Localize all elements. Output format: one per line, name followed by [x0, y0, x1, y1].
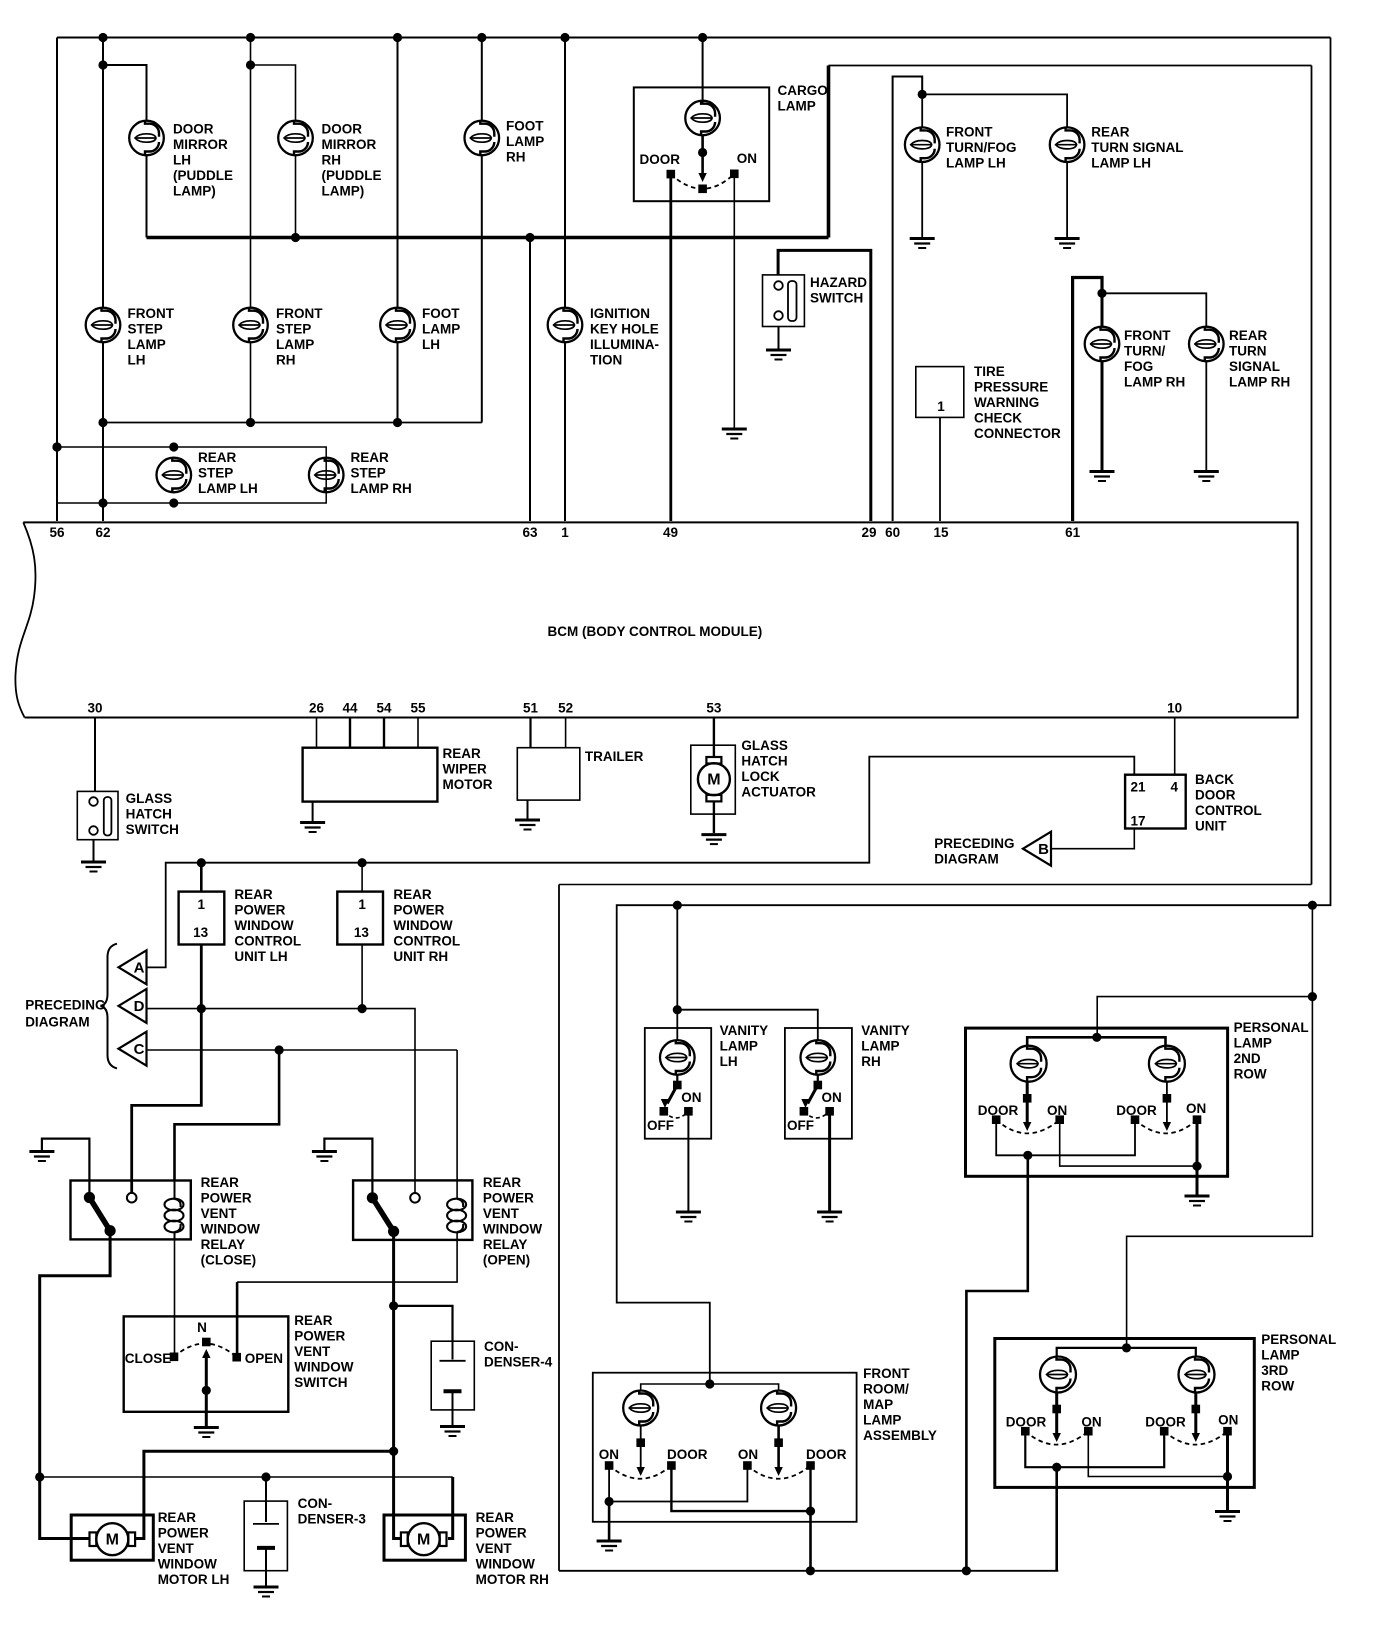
wire front turn/fog RH to ground	[1101, 361, 1104, 471]
wire return bus drop x559	[558, 885, 560, 1571]
wire BCM pin 51	[529, 718, 531, 748]
svg-text:LAMP RH: LAMP RH	[351, 481, 412, 496]
svg-text:MIRROR: MIRROR	[173, 137, 228, 152]
contact switch N	[202, 1338, 211, 1347]
svg-text:POWER: POWER	[476, 1526, 527, 1541]
tire pressure warning check connector box	[916, 367, 964, 418]
wire door mirror LH feed	[103, 65, 147, 121]
svg-text:UNIT LH: UNIT LH	[234, 949, 287, 964]
wire foot lamp LH return	[397, 342, 399, 422]
junction turn lamps RH	[1097, 289, 1106, 298]
svg-text:VENT: VENT	[294, 1344, 331, 1359]
lamp VANITY LAMP LH	[660, 1040, 695, 1075]
svg-text:2ND: 2ND	[1234, 1051, 1261, 1066]
contact 2nd row DOOR right	[1131, 1115, 1140, 1124]
wire 2nd row inner bus	[1027, 1037, 1165, 1046]
svg-text:(OPEN): (OPEN)	[483, 1253, 530, 1268]
relay close common contact	[84, 1192, 95, 1203]
svg-text:C: C	[134, 1041, 145, 1058]
svg-text:LH: LH	[128, 353, 146, 368]
junction mirror LH tap	[98, 60, 107, 69]
svg-text:RH: RH	[276, 353, 296, 368]
svg-text:WINDOW: WINDOW	[294, 1360, 353, 1375]
svg-text:SIGNAL: SIGNAL	[1229, 359, 1280, 374]
svg-text:TURN/FOG: TURN/FOG	[946, 140, 1017, 155]
wire 2nd row left lamp drop	[1026, 1082, 1029, 1126]
contact switch CLOSE	[170, 1353, 179, 1362]
svg-text:ON: ON	[1047, 1103, 1067, 1118]
svg-text:M: M	[417, 1532, 430, 1549]
junction 2nd row DOOR output	[1023, 1151, 1032, 1160]
junction bottom bus front-room output	[806, 1566, 815, 1575]
wire foot lamp RH return	[481, 155, 483, 422]
svg-text:RELAY: RELAY	[201, 1237, 246, 1252]
svg-text:OFF: OFF	[787, 1118, 814, 1133]
svg-text:DIAGRAM: DIAGRAM	[934, 852, 999, 867]
svg-text:13: 13	[193, 925, 209, 940]
wire 3rd row right lamp drop	[1194, 1393, 1197, 1438]
vanity LH switch arc	[664, 1111, 689, 1118]
relay open NO contact	[410, 1193, 420, 1203]
contact switch OPEN	[232, 1353, 241, 1362]
contact 3rd row ON right	[1223, 1427, 1232, 1436]
svg-text:OPEN: OPEN	[245, 1351, 283, 1366]
arrow 2nd row left	[1023, 1122, 1031, 1131]
junction top bus x565	[560, 33, 569, 42]
wire return bus top run to right	[829, 65, 1312, 67]
svg-text:TURN SIGNAL: TURN SIGNAL	[1091, 140, 1183, 155]
wire hazard switch feed / BCM pin 29	[778, 250, 871, 521]
glass hatch switch rocker	[104, 797, 112, 836]
svg-text:29: 29	[861, 525, 876, 540]
wire front room left lamp drop	[640, 1426, 642, 1471]
svg-text:21: 21	[1131, 780, 1147, 795]
svg-text:MOTOR: MOTOR	[443, 777, 493, 792]
ground personal lamp 3rd row	[1215, 1512, 1240, 1522]
svg-text:TIRE: TIRE	[974, 364, 1005, 379]
relay open armature	[372, 1198, 393, 1232]
ground front turn/fog RH	[1090, 472, 1115, 482]
ground rear turn RH	[1194, 472, 1219, 482]
svg-text:REAR: REAR	[1229, 328, 1268, 343]
svg-text:SWITCH: SWITCH	[126, 822, 179, 837]
capacitor CON-DENSER-3	[253, 1523, 279, 1525]
svg-text:ON: ON	[1218, 1413, 1238, 1428]
svg-text:FRONT: FRONT	[1124, 328, 1171, 343]
svg-text:WARNING: WARNING	[974, 395, 1039, 410]
svg-text:LAMP: LAMP	[1234, 1036, 1272, 1051]
junction 2nd row ON output	[1192, 1162, 1201, 1171]
svg-text:REAR: REAR	[476, 1510, 515, 1525]
wire net A (back door 21 to units and triangle A)	[147, 757, 1135, 968]
junction top bus x482	[477, 33, 486, 42]
svg-text:CON-: CON-	[298, 1496, 333, 1511]
svg-text:POWER: POWER	[393, 903, 444, 918]
svg-text:WINDOW: WINDOW	[393, 918, 452, 933]
contact cargo DOOR	[667, 170, 676, 179]
junction vanity feed	[673, 901, 682, 910]
svg-text:LAMP: LAMP	[778, 99, 816, 114]
wire glass hatch switch ground lead	[93, 840, 95, 861]
svg-text:FRONT: FRONT	[946, 125, 993, 140]
svg-text:LAMP RH: LAMP RH	[1124, 375, 1185, 390]
junction vanity RH branch	[673, 1005, 682, 1014]
ground rear turn LH	[1055, 239, 1080, 249]
ground cargo ON	[722, 429, 747, 439]
wire relay close common feed	[42, 1139, 90, 1198]
svg-text:UNIT RH: UNIT RH	[393, 949, 448, 964]
wire 3rd row DOOR tie	[1025, 1431, 1164, 1467]
svg-text:10: 10	[1167, 701, 1182, 716]
svg-text:30: 30	[87, 701, 102, 716]
junction D unit RH	[358, 1004, 367, 1013]
contact front room left	[636, 1438, 645, 1447]
lamp VANITY LAMP RH	[801, 1040, 836, 1075]
svg-text:63: 63	[522, 525, 538, 540]
svg-text:1: 1	[937, 399, 945, 414]
glass hatch switch contact top	[89, 797, 98, 806]
svg-text:HATCH: HATCH	[126, 807, 172, 822]
rear power window control unit LH box	[179, 892, 225, 945]
wire BCM pin 52	[565, 718, 567, 748]
relay close armature	[89, 1198, 110, 1231]
contact 3rd row DOOR right	[1160, 1427, 1169, 1436]
lamp IGNITION KEY HOLE ILLUMINATION	[548, 308, 583, 343]
svg-text:ROOM/: ROOM/	[863, 1382, 909, 1397]
svg-text:POWER: POWER	[234, 903, 285, 918]
wire door mirror RH return	[295, 155, 297, 237]
svg-text:ROW: ROW	[1261, 1379, 1294, 1394]
svg-text:PRESSURE: PRESSURE	[974, 380, 1048, 395]
contact front room ON right	[743, 1461, 752, 1470]
wire C to relay close coil	[175, 1050, 280, 1181]
wire net D	[147, 1009, 416, 1193]
svg-text:ON: ON	[737, 151, 757, 166]
triangle preceding diagram B	[1023, 832, 1051, 866]
svg-text:KEY HOLE: KEY HOLE	[590, 322, 659, 337]
svg-text:FOG: FOG	[1124, 359, 1153, 374]
svg-text:MAP: MAP	[863, 1397, 893, 1412]
condenser-4 box	[431, 1341, 474, 1410]
svg-text:WINDOW: WINDOW	[201, 1222, 260, 1237]
svg-text:LAMP LH: LAMP LH	[1091, 156, 1151, 171]
BCM torn left edge	[15, 522, 35, 717]
lamp FRONT STEP LAMP RH	[233, 308, 268, 343]
wire front room DOOR output	[809, 1511, 812, 1571]
svg-text:ACTUATOR: ACTUATOR	[741, 785, 816, 800]
relay open common contact	[367, 1192, 378, 1203]
wire condenser-3 feed	[265, 1477, 267, 1522]
junction mirror RH on bus	[291, 233, 300, 242]
junction 3rd row DOOR output	[1052, 1463, 1061, 1472]
svg-text:BCM (BODY CONTROL MODULE): BCM (BODY CONTROL MODULE)	[548, 624, 763, 639]
wire cargo DOOR to BCM pin 49	[669, 174, 672, 521]
wire main return bus (heavy)	[147, 236, 829, 240]
lamp REAR TURN SIGNAL LAMP RH	[1189, 327, 1224, 362]
junction 3rd row feed	[1122, 1343, 1131, 1352]
svg-text:LAMP LH: LAMP LH	[946, 156, 1006, 171]
wire motor LH right lead	[136, 1451, 394, 1538]
svg-text:ON: ON	[681, 1090, 701, 1105]
contact vanity LH pivot	[673, 1081, 682, 1090]
wire BCM pin 10	[1174, 718, 1176, 775]
svg-text:LAMP RH: LAMP RH	[1229, 375, 1290, 390]
junction rear step LH feed	[169, 442, 178, 451]
svg-text:49: 49	[663, 525, 678, 540]
switch arc	[174, 1343, 237, 1357]
svg-text:44: 44	[342, 701, 358, 716]
contact 2nd row ON right	[1193, 1115, 1202, 1124]
wire BCM pin 60 riser	[893, 77, 923, 522]
junction foot LH on return bus	[393, 418, 402, 427]
triangle preceding diagram D	[119, 989, 147, 1023]
svg-text:FRONT: FRONT	[128, 306, 175, 321]
back door control unit box	[1125, 775, 1186, 829]
contact vanity RH OFF	[800, 1107, 809, 1116]
junction personal feed	[1308, 901, 1317, 910]
ground condenser-4	[440, 1427, 465, 1437]
svg-text:MIRROR: MIRROR	[322, 137, 377, 152]
wire relay close output	[40, 1231, 110, 1539]
svg-text:STEP: STEP	[351, 466, 386, 481]
contact vanity LH ON	[684, 1107, 693, 1116]
svg-text:LAMP: LAMP	[422, 322, 460, 337]
svg-text:61: 61	[1065, 525, 1081, 540]
relay close coil	[174, 1181, 176, 1200]
personal lamp 2nd row box	[966, 1028, 1228, 1176]
svg-text:GLASS: GLASS	[126, 791, 173, 806]
junction 2nd row branch	[1308, 992, 1317, 1001]
wire relay open coil to switch OPEN	[237, 1240, 457, 1282]
lamp DOOR MIRROR RH (PUDDLE LAMP)	[278, 121, 313, 156]
ground trailer	[515, 820, 540, 830]
junction unit LH pin1	[197, 858, 206, 867]
arrow 3rd row right	[1192, 1433, 1200, 1442]
motor REAR POWER VENT WINDOW MOTOR RH	[384, 1515, 465, 1560]
svg-text:REAR: REAR	[294, 1313, 333, 1328]
wire front step lamp RH chain	[250, 38, 252, 308]
svg-text:M: M	[106, 1532, 119, 1549]
wire unit RH pin 1	[361, 863, 363, 892]
svg-text:ON: ON	[599, 1447, 619, 1462]
ground vanity lamp RH	[817, 1212, 842, 1222]
contact front room right	[774, 1438, 783, 1447]
junction rear step feed left	[52, 442, 61, 451]
svg-text:WINDOW: WINDOW	[158, 1557, 217, 1572]
svg-text:POWER: POWER	[158, 1526, 209, 1541]
lamp DOOR MIRROR LH (PUDDLE LAMP)	[129, 121, 164, 156]
svg-text:LAMP: LAMP	[861, 1039, 899, 1054]
wire BCM pin 61 riser	[1073, 278, 1102, 522]
svg-text:REAR: REAR	[158, 1510, 197, 1525]
contact vanity RH pivot	[814, 1081, 823, 1090]
wire BCM pin 15	[939, 417, 941, 521]
svg-text:STEP: STEP	[276, 322, 311, 337]
wire relay close coil to switch CLOSE	[174, 1239, 176, 1356]
svg-text:FRONT: FRONT	[276, 306, 323, 321]
wire vanity RH to ground	[828, 1111, 831, 1211]
ground rear power vent window switch	[194, 1428, 219, 1438]
wire cargo ON to ground	[733, 174, 735, 429]
svg-text:ROW: ROW	[1234, 1067, 1267, 1082]
svg-text:13: 13	[354, 925, 370, 940]
svg-text:LAMP: LAMP	[1261, 1348, 1299, 1363]
svg-text:ON: ON	[1081, 1415, 1101, 1430]
wire switch common	[205, 1352, 208, 1427]
motor GLASS HATCH LOCK ACTUATOR	[698, 763, 730, 795]
ground relay open common	[312, 1152, 337, 1162]
svg-text:DOOR: DOOR	[806, 1447, 847, 1462]
svg-text:GLASS: GLASS	[741, 738, 788, 753]
hazard switch rocker	[788, 281, 797, 321]
wire front room right lamp drop	[777, 1426, 780, 1471]
svg-text:POWER: POWER	[483, 1191, 534, 1206]
svg-text:B: B	[1038, 841, 1049, 858]
svg-text:TURN: TURN	[1229, 344, 1267, 359]
svg-text:LAMP: LAMP	[276, 337, 314, 352]
wire net C	[147, 1049, 458, 1051]
svg-text:CONNECTOR: CONNECTOR	[974, 426, 1061, 441]
svg-text:CONTROL: CONTROL	[393, 934, 460, 949]
svg-text:3RD: 3RD	[1261, 1363, 1288, 1378]
svg-text:HATCH: HATCH	[741, 754, 787, 769]
svg-text:ON: ON	[822, 1090, 842, 1105]
wire rear turn signal RH feed	[1102, 293, 1206, 326]
wire actuator ground lead	[713, 801, 715, 833]
wire vanity RH feed	[677, 1010, 818, 1040]
front room left switch arc	[609, 1466, 671, 1479]
junction mirror RH tap	[246, 60, 255, 69]
wire main feed right edge	[617, 38, 1331, 1385]
rear power vent window switch box	[124, 1316, 289, 1411]
junction motor bus	[389, 1447, 398, 1456]
wire rear turn signal LH feed	[922, 94, 1067, 127]
lamp FRONT TURN/FOG LAMP RH	[1085, 327, 1120, 362]
svg-text:DOOR: DOOR	[1006, 1415, 1047, 1430]
wire front turn/fog LH drop	[921, 94, 923, 127]
rear power window control unit RH box	[337, 892, 383, 945]
lamp REAR STEP LAMP LH	[157, 458, 192, 493]
2nd row right switch arc	[1135, 1120, 1197, 1134]
wire relay open output	[394, 1231, 400, 1538]
svg-text:CON-: CON-	[484, 1339, 519, 1354]
svg-text:WIPER: WIPER	[443, 762, 488, 777]
wire 2nd row feed	[1097, 997, 1312, 1038]
trailer connector box	[517, 748, 580, 800]
contact front room DOOR right	[806, 1461, 815, 1470]
lamp front room/map right	[761, 1391, 796, 1426]
svg-text:A: A	[134, 960, 145, 977]
svg-text:DENSER-4: DENSER-4	[484, 1355, 553, 1370]
lamp FOOT LAMP RH	[465, 121, 500, 156]
wire 2nd row ON to ground	[1196, 1120, 1199, 1195]
wire vanity RH lamp to switch	[817, 1075, 819, 1085]
glass hatch lock actuator box	[691, 745, 736, 814]
contact 2nd row right	[1163, 1094, 1172, 1103]
ground glass hatch switch	[81, 862, 106, 872]
svg-text:ASSEMBLY: ASSEMBLY	[863, 1428, 937, 1443]
svg-text:ON: ON	[738, 1447, 758, 1462]
svg-text:WINDOW: WINDOW	[483, 1222, 542, 1237]
svg-text:26: 26	[309, 701, 325, 716]
vanity RH switch arc	[804, 1111, 830, 1118]
wire vanity LH feed	[676, 905, 678, 1040]
svg-text:DOOR: DOOR	[1116, 1103, 1157, 1118]
junction C relay close branch	[275, 1045, 284, 1054]
svg-text:LAMP LH: LAMP LH	[198, 481, 258, 496]
svg-text:CONTROL: CONTROL	[234, 934, 301, 949]
junction turn lamps LH	[918, 90, 927, 99]
wire condenser-4 feed	[394, 1306, 453, 1341]
wire front turn/fog LH to ground	[921, 162, 923, 238]
svg-text:DOOR: DOOR	[640, 152, 681, 167]
svg-text:VENT: VENT	[476, 1541, 513, 1556]
wire 3rd row ON to ground	[1226, 1431, 1229, 1511]
wire front room DOOR tie	[671, 1466, 810, 1512]
svg-text:1: 1	[561, 525, 569, 540]
capacitor CON-DENSER-4	[452, 1341, 454, 1359]
junction top bus x103	[98, 33, 107, 42]
rear power vent window relay (open) box	[353, 1180, 472, 1240]
svg-text:VANITY: VANITY	[861, 1023, 910, 1038]
wire unit LH pin 13 to relay close NO	[132, 945, 202, 1193]
wire vanity LH lamp to switch	[676, 1075, 678, 1085]
svg-text:RH: RH	[861, 1054, 881, 1069]
svg-text:REAR: REAR	[443, 746, 482, 761]
wire unit RH pin 13	[361, 945, 363, 1009]
svg-text:PRECEDING: PRECEDING	[934, 836, 1014, 851]
svg-text:54: 54	[376, 701, 392, 716]
svg-text:FOOT: FOOT	[422, 306, 460, 321]
wire back door pin 17 to triangle B	[1051, 829, 1134, 849]
svg-text:LOCK: LOCK	[741, 769, 779, 784]
triangle preceding diagram A	[119, 950, 147, 984]
condenser-3 box	[244, 1501, 287, 1571]
personal lamp 3rd row box	[995, 1339, 1255, 1488]
svg-text:REAR: REAR	[201, 1175, 240, 1190]
wire condenser-4 ground lead	[452, 1410, 454, 1426]
svg-text:POWER: POWER	[294, 1329, 345, 1344]
contact front room ON left	[605, 1461, 614, 1470]
junction top bus x397	[393, 33, 402, 42]
svg-text:62: 62	[95, 525, 110, 540]
svg-text:(PUDDLE: (PUDDLE	[173, 168, 233, 183]
junction condenser-3 tap	[261, 1472, 270, 1481]
lamp FOOT LAMP LH	[380, 308, 415, 343]
hazard switch contact top	[774, 281, 783, 290]
svg-text:REAR: REAR	[198, 450, 237, 465]
svg-text:4: 4	[1171, 780, 1179, 795]
svg-text:LAMP: LAMP	[506, 134, 544, 149]
svg-text:VENT: VENT	[483, 1206, 520, 1221]
wire BCM pin 56 feed	[56, 38, 58, 522]
contact vanity LH OFF	[660, 1107, 669, 1116]
triangle preceding diagram C	[119, 1032, 147, 1066]
svg-text:WINDOW: WINDOW	[234, 918, 293, 933]
wire BCM pin 54	[383, 718, 385, 748]
junction rear step LH return	[169, 498, 178, 507]
svg-text:CLOSE: CLOSE	[125, 1351, 172, 1366]
svg-text:TURN/: TURN/	[1124, 344, 1165, 359]
svg-text:MOTOR RH: MOTOR RH	[476, 1572, 549, 1587]
svg-text:LAMP: LAMP	[720, 1039, 758, 1054]
svg-text:OFF: OFF	[647, 1118, 674, 1133]
lamp FRONT STEP LAMP LH	[86, 308, 121, 343]
svg-text:WINDOW: WINDOW	[476, 1557, 535, 1572]
svg-text:DOOR: DOOR	[667, 1447, 708, 1462]
junction pin63 drop	[525, 233, 534, 242]
BCM (body control module) box	[23, 522, 1297, 717]
